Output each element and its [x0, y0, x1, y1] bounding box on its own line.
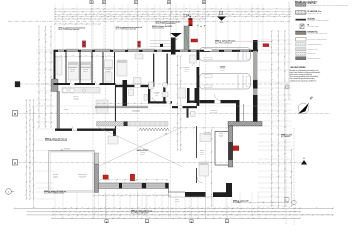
svg-text:5,20: 5,20 — [69, 23, 72, 25]
svg-text:4,05: 4,05 — [29, 124, 31, 127]
svg-text:2,40: 2,40 — [50, 68, 52, 71]
svg-text:3,45: 3,45 — [151, 213, 154, 215]
svg-text:2,40: 2,40 — [32, 119, 34, 122]
svg-text:4,05: 4,05 — [73, 10, 76, 12]
svg-text:2,40: 2,40 — [44, 102, 46, 105]
svg-text:2,40: 2,40 — [104, 10, 107, 12]
svg-text:1,65: 1,65 — [130, 10, 133, 12]
svg-text:6,30: 6,30 — [125, 194, 128, 196]
svg-text:1,50: 1,50 — [146, 13, 149, 15]
svg-text:2,10: 2,10 — [38, 75, 40, 78]
svg-text:4,05: 4,05 — [44, 87, 46, 90]
svg-text:1,05: 1,05 — [283, 62, 285, 65]
svg-text:3,45: 3,45 — [110, 15, 113, 17]
svg-text:1,05: 1,05 — [266, 10, 269, 12]
svg-text:2,10: 2,10 — [163, 213, 166, 215]
svg-text:1,05: 1,05 — [115, 18, 118, 20]
svg-text:6,30: 6,30 — [107, 13, 110, 15]
svg-text:2,85: 2,85 — [283, 93, 285, 96]
svg-text:4,05: 4,05 — [270, 46, 272, 49]
svg-text:1,20: 1,20 — [258, 213, 261, 215]
svg-text:1,65: 1,65 — [327, 213, 330, 215]
svg-text:5,20: 5,20 — [227, 207, 230, 209]
svg-text:1,50: 1,50 — [270, 138, 272, 141]
svg-text:1,20: 1,20 — [44, 71, 46, 74]
svg-text:4,05: 4,05 — [282, 13, 285, 15]
svg-text:1,65: 1,65 — [44, 117, 46, 120]
svg-text:5,20: 5,20 — [178, 217, 181, 219]
svg-text:1,20: 1,20 — [97, 8, 100, 10]
svg-text:1,50: 1,50 — [277, 74, 279, 77]
svg-text:1,65: 1,65 — [32, 150, 34, 153]
svg-text:3,55: 3,55 — [108, 55, 111, 57]
svg-text:4,05: 4,05 — [281, 213, 284, 215]
svg-text:5,20: 5,20 — [178, 210, 181, 212]
svg-text:2,85: 2,85 — [33, 207, 36, 209]
svg-text:5,20: 5,20 — [104, 18, 107, 20]
svg-text:2,85: 2,85 — [219, 217, 222, 219]
svg-text:2,10: 2,10 — [270, 159, 272, 162]
svg-text:4,05: 4,05 — [64, 210, 67, 212]
svg-text:6,30: 6,30 — [158, 207, 161, 209]
svg-text:B: B — [14, 113, 16, 116]
svg-text:6,30: 6,30 — [32, 177, 34, 180]
svg-text:6,30: 6,30 — [121, 210, 124, 212]
svg-text:4,05: 4,05 — [290, 176, 292, 179]
svg-text:4,05: 4,05 — [25, 173, 27, 176]
svg-text:2,40: 2,40 — [60, 213, 63, 215]
svg-text:1,05: 1,05 — [277, 127, 279, 130]
svg-text:1,20: 1,20 — [255, 13, 258, 15]
svg-text:±0,00: ±0,00 — [220, 22, 224, 24]
svg-text:MEGJEGYZÉSEK:: MEGJEGYZÉSEK: — [291, 66, 307, 69]
svg-text:1,20: 1,20 — [25, 149, 27, 152]
svg-text:1,65: 1,65 — [89, 13, 92, 15]
svg-text:6,30: 6,30 — [106, 213, 109, 215]
svg-text:6,30: 6,30 — [270, 103, 272, 106]
svg-text:6,30: 6,30 — [277, 35, 279, 38]
svg-text:1,50: 1,50 — [188, 207, 191, 209]
svg-text:5,20: 5,20 — [189, 213, 192, 215]
svg-text:1,65: 1,65 — [81, 213, 84, 215]
svg-text:1,65: 1,65 — [100, 210, 103, 212]
svg-text:3,45: 3,45 — [132, 217, 135, 219]
svg-text:1,05: 1,05 — [202, 13, 205, 15]
svg-text:2,40: 2,40 — [25, 193, 27, 196]
svg-text:2,85: 2,85 — [225, 13, 228, 15]
svg-text:3,55: 3,55 — [96, 55, 99, 57]
svg-text:2,85: 2,85 — [25, 126, 27, 129]
svg-text:1,05: 1,05 — [236, 207, 239, 209]
svg-text:5,20: 5,20 — [193, 13, 196, 15]
svg-text:1,50: 1,50 — [197, 10, 200, 12]
svg-text:6,30: 6,30 — [29, 185, 31, 188]
svg-text:1,20: 1,20 — [221, 210, 224, 212]
svg-text:1,05: 1,05 — [25, 104, 27, 107]
svg-text:→ 1,05: → 1,05 — [163, 134, 167, 136]
svg-text:1,65: 1,65 — [50, 89, 52, 92]
svg-text:3,55: 3,55 — [72, 55, 75, 57]
svg-text:1,20: 1,20 — [29, 104, 31, 107]
svg-text:1,65: 1,65 — [107, 194, 110, 196]
svg-text:2,10: 2,10 — [170, 13, 173, 15]
svg-text:1,65: 1,65 — [256, 8, 259, 10]
svg-text:1,65: 1,65 — [274, 210, 277, 212]
svg-text:5,20: 5,20 — [277, 115, 279, 118]
svg-text:1,20: 1,20 — [277, 207, 280, 209]
svg-text:2,10: 2,10 — [166, 194, 169, 196]
svg-text:2,40: 2,40 — [258, 210, 261, 212]
svg-text:2,85: 2,85 — [257, 207, 260, 209]
svg-text:1,05: 1,05 — [80, 23, 83, 25]
svg-text:4,05: 4,05 — [93, 207, 96, 209]
svg-text:2,85: 2,85 — [201, 210, 204, 212]
svg-text:5,20: 5,20 — [283, 47, 285, 50]
svg-text:2,40: 2,40 — [62, 13, 65, 15]
svg-text:5,20: 5,20 — [251, 10, 254, 12]
svg-text:1,50: 1,50 — [117, 217, 120, 219]
svg-text:4,05: 4,05 — [277, 195, 279, 198]
svg-text:3,45: 3,45 — [80, 18, 83, 20]
svg-text:3,45: 3,45 — [157, 13, 160, 15]
svg-text:2,40: 2,40 — [83, 210, 86, 212]
svg-text:1,50: 1,50 — [104, 15, 107, 17]
svg-text:3,55: 3,55 — [60, 55, 63, 57]
svg-text:4,05: 4,05 — [165, 18, 168, 20]
svg-text:4,05: 4,05 — [283, 146, 285, 149]
svg-text:6,30: 6,30 — [76, 15, 79, 17]
svg-text:3,45: 3,45 — [152, 210, 155, 212]
svg-text:2,85: 2,85 — [277, 149, 279, 152]
svg-text:1,05: 1,05 — [270, 188, 272, 191]
svg-text:2,10: 2,10 — [277, 96, 279, 99]
svg-text:2,40: 2,40 — [307, 213, 310, 215]
svg-text:2,40: 2,40 — [113, 207, 116, 209]
svg-text:1,65: 1,65 — [58, 15, 61, 17]
svg-text:A: A — [14, 162, 16, 165]
svg-text:3,45: 3,45 — [159, 194, 162, 196]
svg-text:2,40: 2,40 — [229, 15, 232, 17]
svg-text:4,05: 4,05 — [151, 8, 154, 10]
svg-text:6,30: 6,30 — [162, 10, 165, 12]
svg-text:1,20: 1,20 — [70, 207, 73, 209]
svg-text:2,40: 2,40 — [283, 174, 285, 177]
svg-text:G: G — [168, 2, 170, 4]
svg-text:1,05: 1,05 — [187, 210, 190, 212]
svg-text:1,20: 1,20 — [283, 118, 285, 121]
svg-text:2,10: 2,10 — [207, 207, 210, 209]
svg-text:+1,05: +1,05 — [60, 149, 64, 151]
svg-text:1,20: 1,20 — [277, 170, 279, 173]
svg-text:5,20: 5,20 — [38, 97, 40, 100]
svg-text:2,10: 2,10 — [148, 217, 151, 219]
svg-text:2,10: 2,10 — [228, 10, 231, 12]
svg-text:2,40: 2,40 — [182, 18, 185, 20]
svg-text:2,10: 2,10 — [86, 18, 89, 20]
svg-text:50-es PV-01: 50-es PV-01 — [233, 202, 241, 204]
svg-text:3,45: 3,45 — [213, 10, 216, 12]
svg-text:6,30: 6,30 — [267, 15, 270, 17]
svg-text:4,05: 4,05 — [207, 15, 210, 17]
svg-text:1,65: 1,65 — [270, 83, 272, 86]
svg-text:1,05: 1,05 — [44, 37, 46, 40]
svg-text:1,20: 1,20 — [151, 18, 154, 20]
svg-text:1,65: 1,65 — [250, 15, 253, 17]
svg-text:1,65: 1,65 — [29, 166, 31, 169]
svg-text:POROTHERM 10 N+F Hmv: POROTHERM 10 N+F Hmv — [308, 13, 323, 15]
svg-text:1,05: 1,05 — [191, 217, 194, 219]
svg-text:3,45: 3,45 — [277, 86, 279, 89]
svg-text:1,65: 1,65 — [201, 18, 204, 20]
svg-text:3,45: 3,45 — [196, 207, 199, 209]
svg-text:1,50: 1,50 — [152, 194, 155, 196]
svg-text:2,40: 2,40 — [270, 67, 272, 70]
svg-text:1,20: 1,20 — [247, 217, 250, 219]
svg-text:5,20: 5,20 — [44, 29, 46, 32]
svg-text:1,05: 1,05 — [147, 15, 150, 17]
svg-text:1,50: 1,50 — [38, 57, 40, 60]
svg-text:5,20: 5,20 — [270, 177, 272, 180]
svg-text:1,05: 1,05 — [38, 109, 40, 112]
svg-text:2,85: 2,85 — [229, 213, 232, 215]
svg-text:2,10: 2,10 — [161, 210, 164, 212]
svg-text:2,40: 2,40 — [211, 8, 214, 10]
svg-text:4,05: 4,05 — [243, 210, 246, 212]
svg-text:1,65: 1,65 — [137, 207, 140, 209]
svg-text:2,85: 2,85 — [135, 18, 138, 20]
svg-text:2,85: 2,85 — [169, 15, 172, 17]
svg-text:3,45: 3,45 — [38, 67, 40, 70]
svg-text:2,85: 2,85 — [44, 54, 46, 57]
svg-text:6,30: 6,30 — [294, 210, 297, 212]
svg-text:1,05: 1,05 — [201, 213, 204, 215]
svg-text:4,05: 4,05 — [50, 43, 52, 46]
svg-text:4,05: 4,05 — [273, 217, 276, 219]
svg-text:6,30: 6,30 — [50, 116, 52, 119]
svg-text:kavicságy 15 cm: kavicságy 15 cm — [308, 53, 316, 55]
svg-text:3,45: 3,45 — [270, 149, 272, 152]
svg-text:2,10: 2,10 — [119, 15, 122, 17]
svg-text:6,30: 6,30 — [61, 217, 64, 219]
svg-text:5,20: 5,20 — [137, 15, 140, 17]
svg-text:3,55: 3,55 — [85, 55, 88, 57]
svg-text:1,50: 1,50 — [72, 18, 75, 20]
svg-text:2,40: 2,40 — [29, 143, 31, 146]
